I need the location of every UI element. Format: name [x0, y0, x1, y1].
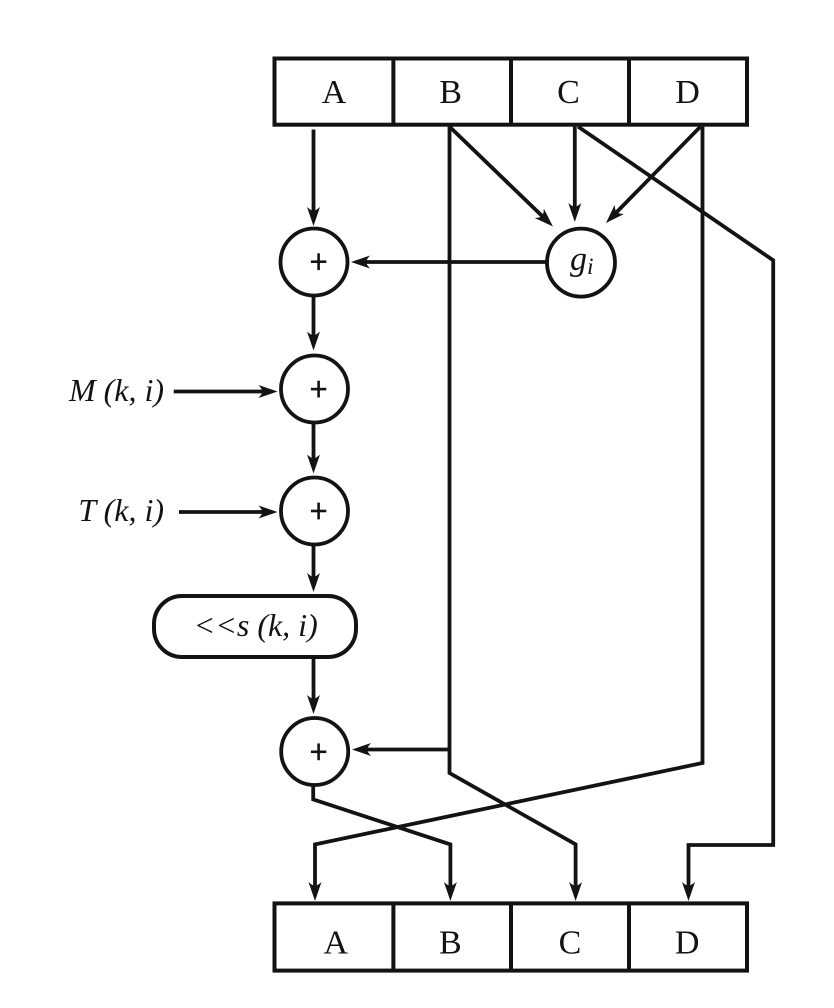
wire branch from B into adder 4	[366, 748, 450, 752]
wire adder 2 to adder 3	[312, 423, 316, 460]
svg-text:B: B	[439, 925, 462, 962]
top register box	[275, 59, 748, 125]
wire shift box to adder 4	[312, 657, 316, 700]
svg-text:i: i	[587, 254, 594, 280]
wire adder 4 output bend to bottom B	[313, 785, 450, 887]
adder U1 circle	[281, 229, 348, 296]
wire adder 3 to shift box	[312, 545, 316, 579]
wire T label arrow into adder 3	[179, 510, 264, 514]
bottom register divider B/C	[509, 903, 513, 970]
wire D vertical then bend to bottom A	[315, 127, 703, 887]
adder U4 plus sign	[311, 743, 326, 760]
adder U3 circle	[281, 478, 348, 545]
svg-text:C: C	[559, 925, 582, 962]
svg-text:B: B	[439, 74, 462, 111]
svg-text:A: A	[324, 925, 349, 962]
wire C vertical into g	[573, 127, 577, 208]
bottom register divider C/D	[627, 903, 631, 970]
wire A down to adder 1	[312, 130, 316, 213]
wire g to adder 1	[365, 260, 547, 264]
svg-text:T (k, i): T (k, i)	[78, 492, 164, 528]
adder U2 circle	[281, 356, 348, 423]
svg-text:M (k, i): M (k, i)	[68, 372, 164, 408]
adder U1 plus sign	[311, 253, 326, 270]
bottom register box	[275, 903, 748, 970]
wire B vertical then bend to bottom C	[450, 127, 576, 887]
svg-text:D: D	[675, 74, 700, 111]
adder U2 plus sign	[311, 381, 326, 398]
top register divider A/B	[391, 59, 395, 125]
adder U4 circle	[281, 718, 348, 785]
wire adder 1 to adder 2	[312, 296, 316, 337]
svg-text:D: D	[675, 925, 700, 962]
svg-text:C: C	[557, 74, 580, 111]
top register divider C/D	[627, 59, 631, 125]
adder U3 plus sign	[311, 503, 326, 520]
wire D diagonal into g	[616, 127, 701, 213]
svg-text:<<s (k, i): <<s (k, i)	[194, 607, 318, 643]
wire B diagonal into g	[450, 127, 543, 217]
svg-text:g: g	[570, 241, 587, 278]
bottom register divider A/B	[391, 903, 395, 970]
wire C diagonal to right side then down to bottom D	[578, 127, 773, 887]
wire M label arrow into adder 2	[174, 390, 264, 394]
top register divider B/C	[509, 59, 513, 125]
svg-text:A: A	[322, 74, 347, 111]
shift box	[154, 596, 356, 657]
function g circle	[547, 229, 615, 297]
